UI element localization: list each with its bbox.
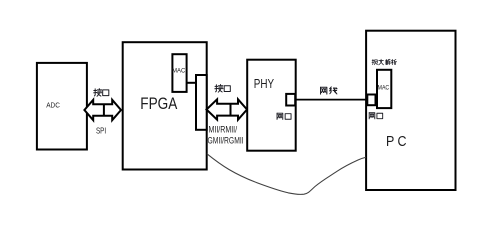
- svg-text:MAC: MAC: [172, 67, 185, 74]
- label 接口 (FPGA-PHY): [215, 85, 230, 93]
- label PHY: [254, 77, 275, 91]
- label GMII/RGMII: [208, 136, 244, 146]
- wire network cable PHY to PC: [296, 99, 368, 101]
- label 网口 (PC): [369, 113, 382, 119]
- arrow FPGA-PHY (double headed): [207, 99, 248, 119]
- svg-text:FPGA: FPGA: [140, 95, 177, 113]
- svg-text:MAC: MAC: [378, 84, 390, 91]
- wire MAC to interface block: [187, 82, 196, 84]
- label MAC (PC): [378, 84, 390, 91]
- block PC network port: [367, 95, 375, 106]
- block FPGA: [123, 42, 207, 169]
- block interface (narrow rect on FPGA right edge): [196, 75, 207, 130]
- label MAC (FPGA): [172, 67, 185, 74]
- label MII/RMII/: [209, 124, 238, 134]
- svg-text:MII/RMII/: MII/RMII/: [209, 124, 238, 134]
- label 网线: [321, 87, 337, 94]
- block MAC inside FPGA: [172, 54, 186, 92]
- block PHY network port: [286, 94, 295, 106]
- label ADC: [46, 101, 60, 110]
- arrow ADC-FPGA (double headed): [84, 100, 121, 120]
- label 网口 (PHY): [277, 113, 291, 119]
- block PHY: [247, 60, 296, 151]
- block PC: [366, 31, 455, 190]
- svg-text:ADC: ADC: [46, 101, 60, 110]
- label 接口 (ADC-FPGA): [94, 89, 109, 97]
- block MAC inside PC: [377, 70, 391, 108]
- svg-text:SPI: SPI: [96, 127, 106, 136]
- wire freeform curve FPGA to PC: [207, 154, 366, 195]
- label SPI: [96, 127, 106, 136]
- label FPGA: [140, 95, 177, 113]
- label 报文解析: [372, 59, 397, 65]
- svg-text:GMII/RGMII: GMII/RGMII: [208, 136, 244, 146]
- svg-text:PHY: PHY: [254, 77, 275, 91]
- svg-text:P C: P C: [386, 133, 407, 150]
- label PC: [386, 133, 407, 150]
- block ADC: [37, 63, 87, 150]
